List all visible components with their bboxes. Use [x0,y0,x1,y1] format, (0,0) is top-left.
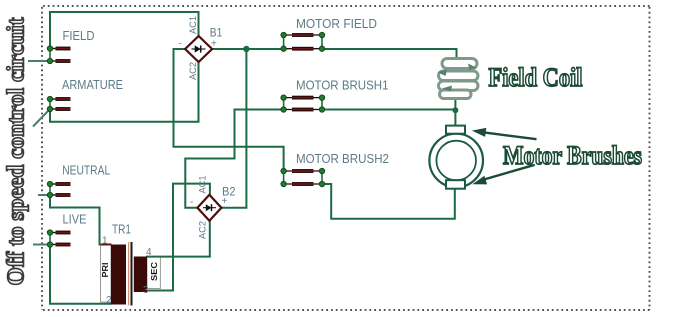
svg-text:NEUTRAL: NEUTRAL [62,163,110,177]
svg-text:2: 2 [106,295,112,306]
svg-text:AC2: AC2 [188,62,199,80]
svg-text:PRI: PRI [101,263,110,278]
svg-text:Motor Brushes: Motor Brushes [503,141,642,170]
svg-text:MOTOR BRUSH2: MOTOR BRUSH2 [296,152,389,166]
svg-text:Off to speed control circuit: Off to speed control circuit [3,17,29,285]
svg-text:Field Coil: Field Coil [489,63,583,92]
svg-text:LIVE: LIVE [63,212,87,226]
svg-text:AC1: AC1 [188,16,199,34]
svg-text:ARMATURE: ARMATURE [62,78,123,92]
svg-text:AC2: AC2 [198,221,209,239]
svg-text:-: - [190,197,193,208]
svg-text:3: 3 [143,285,149,296]
svg-text:1: 1 [102,236,108,247]
svg-text:SEC: SEC [150,262,159,281]
svg-text:4: 4 [146,247,152,258]
svg-text:-: - [179,39,182,50]
svg-text:MOTOR FIELD: MOTOR FIELD [296,17,377,31]
svg-text:+: + [222,196,228,207]
svg-text:+: + [211,39,217,50]
svg-text:TR1: TR1 [112,222,131,236]
svg-text:MOTOR BRUSH1: MOTOR BRUSH1 [296,79,389,93]
svg-text:FIELD: FIELD [63,29,95,43]
svg-text:AC1: AC1 [198,176,209,194]
svg-text:B1: B1 [210,27,223,39]
